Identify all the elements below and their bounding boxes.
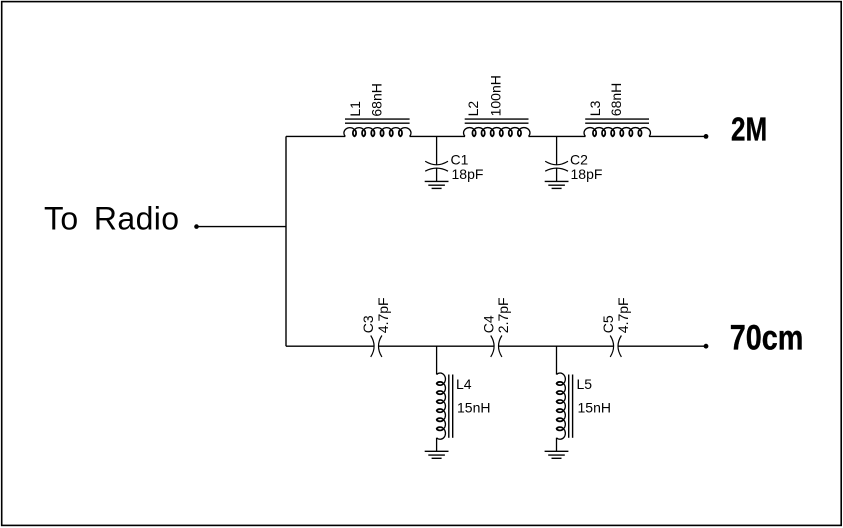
svg-text:68nH: 68nH [608, 83, 624, 116]
svg-text:C1: C1 [451, 151, 469, 167]
wire C5 to 70cm port [618, 345, 706, 347]
svg-text:2.7pF: 2.7pF [495, 297, 511, 333]
svg-text:L4: L4 [456, 376, 472, 392]
capacitor C3 4.7pF [360, 297, 391, 357]
capacitor C5 4.7pF [600, 297, 631, 357]
svg-text:C4: C4 [481, 315, 497, 333]
svg-text:100nH: 100nH [487, 75, 503, 116]
ground under L4 [425, 451, 449, 458]
inductor L4 15nH [437, 346, 491, 451]
node 2M terminal dot [704, 134, 709, 139]
svg-text:C2: C2 [570, 151, 588, 167]
svg-text:L1: L1 [347, 101, 363, 117]
svg-text:68nH: 68nH [369, 83, 385, 116]
svg-text:70cm: 70cm [730, 318, 804, 357]
node To Radio terminal dot [194, 224, 199, 229]
svg-text:C3: C3 [360, 315, 376, 333]
svg-text:15nH: 15nH [578, 399, 611, 415]
wire bus to L1 [286, 135, 345, 137]
inductor L2 100nH [464, 75, 530, 136]
svg-text:L2: L2 [465, 101, 481, 117]
svg-text:15nH: 15nH [457, 399, 490, 415]
wire bus to C3 [286, 345, 374, 347]
wire L1 to L2 [410, 135, 465, 137]
inductor L1 68nH [344, 83, 411, 136]
svg-text:4.7pF: 4.7pF [375, 297, 391, 333]
svg-text:To Radio: To Radio [44, 200, 180, 236]
svg-text:L5: L5 [577, 376, 593, 392]
wire vertical bus [285, 136, 287, 346]
wire C4 to C5 [498, 345, 613, 347]
svg-text:18pF: 18pF [452, 166, 484, 182]
ground under C1 [425, 181, 449, 188]
svg-text:18pF: 18pF [571, 166, 603, 182]
svg-text:4.7pF: 4.7pF [615, 297, 631, 333]
capacitor C4 2.7pF [481, 297, 512, 357]
svg-text:L3: L3 [587, 100, 603, 116]
svg-text:2M: 2M [731, 111, 767, 148]
node 70cm terminal dot [704, 344, 709, 349]
svg-text:C5: C5 [600, 315, 616, 333]
inductor L3 68nH [584, 83, 650, 137]
inductor L5 15nH [556, 346, 611, 451]
wire To Radio stub [197, 226, 287, 228]
capacitor C2 18pF [545, 136, 602, 182]
wire L2 to L3 [529, 135, 586, 137]
ground under C2 [545, 181, 569, 188]
capacitor C1 18pF [425, 136, 483, 182]
ground under L5 [545, 451, 569, 458]
wire L3 to 2M port [649, 135, 706, 137]
wire C3 to C4 [378, 345, 494, 347]
